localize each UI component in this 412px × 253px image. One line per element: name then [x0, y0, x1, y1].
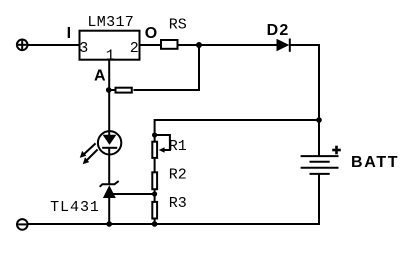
wire R2 to node — [154, 189, 156, 196]
resistor R2 — [152, 172, 157, 189]
wire node to R3 — [154, 194, 156, 202]
svg-text:1: 1 — [106, 47, 115, 64]
wire R1 top to right rail — [155, 120, 319, 136]
wire right rail down to battery — [318, 44, 320, 156]
wire LM317 pin 1 down to node A — [108, 60, 110, 91]
node junction R3 at rail — [152, 221, 158, 227]
node junction at RS output — [196, 42, 202, 48]
svg-text:I: I — [67, 25, 71, 42]
node junction at R1 top — [152, 132, 157, 137]
terminal P2 negative — [17, 219, 28, 230]
zener/shunt reference TL431 — [100, 181, 119, 224]
wire RS to diode D2 — [179, 44, 278, 46]
wire junction down to adj resistor — [134, 45, 200, 90]
battery + polarity mark — [332, 146, 341, 155]
wire battery to bottom rail — [318, 174, 320, 224]
svg-text:LM317: LM317 — [87, 14, 134, 31]
svg-text:D2: D2 — [267, 22, 290, 39]
wire R3 to bottom rail — [154, 219, 156, 225]
wire R1 to R2 — [154, 159, 156, 172]
resistor (adjust, unlabeled) — [116, 88, 132, 93]
resistor R3 — [152, 202, 157, 219]
node A junction — [106, 87, 112, 93]
node junction TL431 anode at rail — [106, 221, 112, 227]
diode D2 — [277, 39, 290, 52]
resistor RS — [161, 40, 178, 49]
LED light emission arrows — [80, 143, 98, 164]
node junction R2/R3 — [152, 191, 157, 196]
svg-text:2: 2 — [130, 40, 139, 57]
svg-text:A: A — [94, 67, 106, 84]
LED D1 — [98, 90, 121, 184]
svg-text:R2: R2 — [169, 167, 187, 184]
wire TL431 ref to R2/R3 node — [112, 193, 155, 195]
node junction right rail — [316, 117, 322, 123]
potentiometer R1 — [152, 135, 170, 158]
svg-text:R1: R1 — [169, 138, 187, 155]
svg-text:R3: R3 — [169, 195, 187, 212]
wire D2 to right rail — [290, 44, 319, 46]
bottom rail wire — [28, 223, 319, 224]
wire from + terminal to LM317 pin 3 — [28, 44, 79, 46]
svg-text:BATT: BATT — [351, 154, 399, 171]
terminal P1 positive input — [17, 40, 28, 51]
wire LM317 pin 2 to RS — [140, 44, 161, 46]
svg-text:RS: RS — [169, 17, 187, 34]
regulator U1 LM317 body — [80, 31, 140, 60]
battery BATT — [301, 156, 339, 174]
svg-text:3: 3 — [79, 40, 88, 57]
svg-text:O: O — [145, 25, 157, 42]
svg-text:TL431: TL431 — [50, 199, 100, 216]
